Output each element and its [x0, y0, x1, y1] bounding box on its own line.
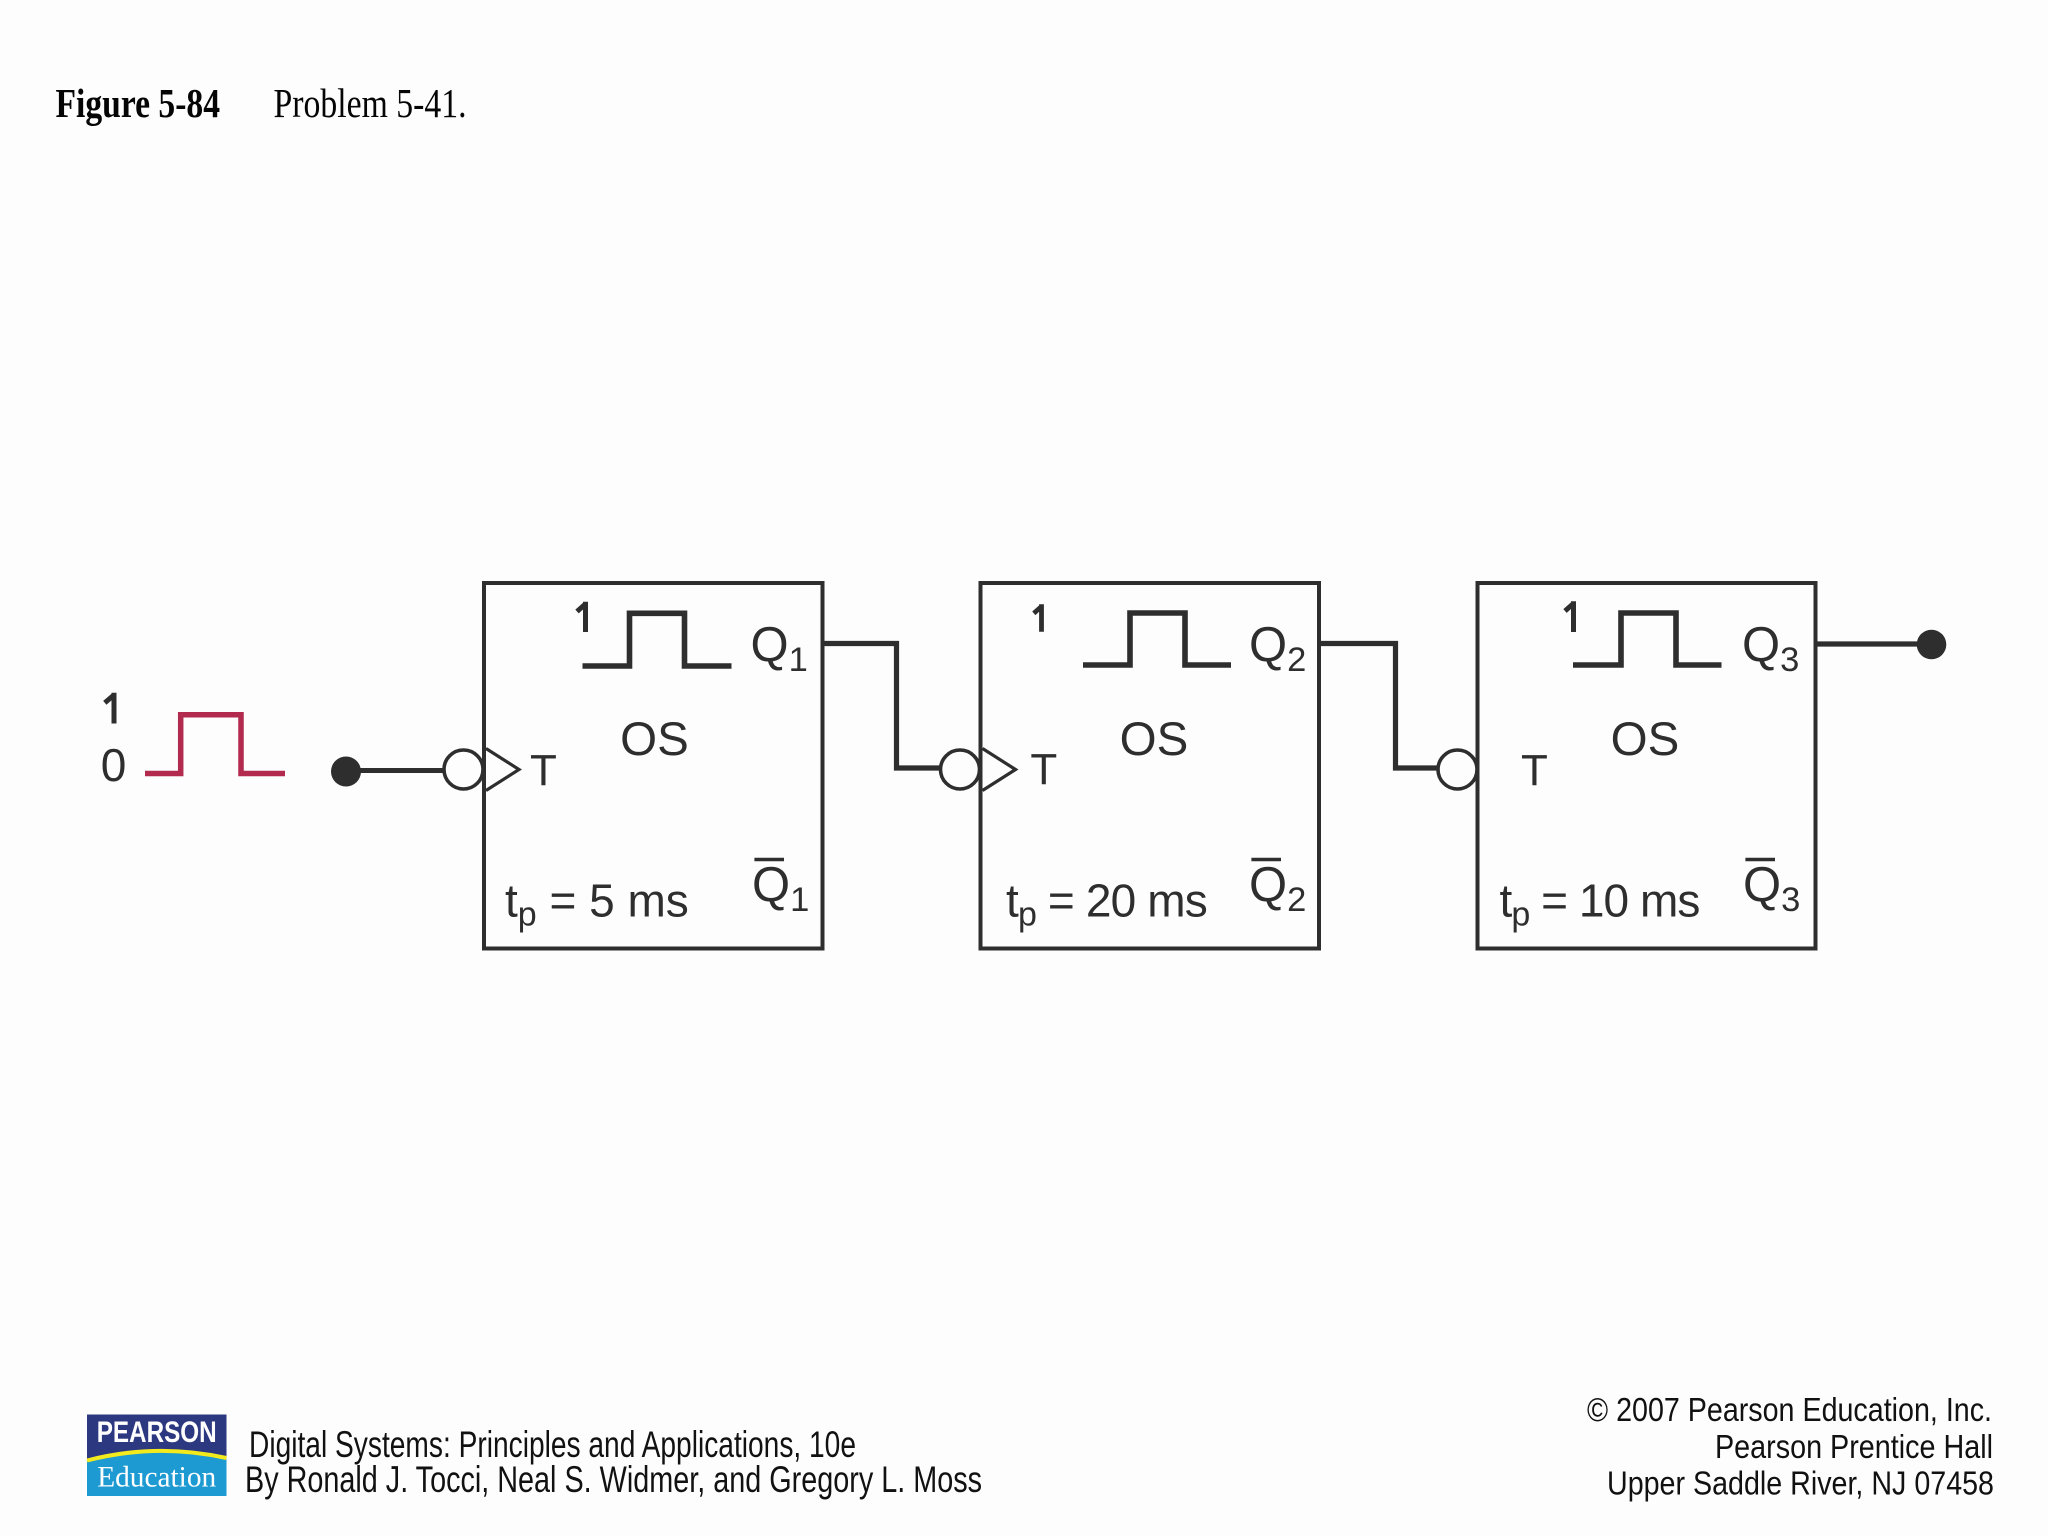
inversion circle at T input of U2: [941, 750, 980, 789]
U3 pulse symbol: [1573, 613, 1722, 665]
svg-text:© 2007 Pearson Education, Inc.: © 2007 Pearson Education, Inc.: [1587, 1391, 1992, 1428]
inversion circle at T input of U3: [1438, 750, 1477, 789]
svg-text:OS: OS: [620, 713, 689, 766]
U1 pulse symbol: [583, 613, 732, 666]
Pearson Education logo: [87, 1415, 227, 1497]
svg-text:Pearson Prentice Hall: Pearson Prentice Hall: [1715, 1428, 1993, 1465]
wire Q2 to T3: [1319, 644, 1438, 769]
svg-text:T: T: [1030, 745, 1057, 794]
U3 pulse level label 1: [1565, 601, 1574, 632]
U2 pulse symbol: [1083, 613, 1231, 665]
svg-text:Figure 5-84: Figure 5-84: [56, 80, 221, 126]
svg-text:T: T: [530, 746, 557, 795]
edge-trigger triangle at T input of U1: [486, 749, 519, 791]
svg-text:OS: OS: [1120, 713, 1189, 766]
U3 Q3-bar overline: [1745, 858, 1775, 861]
one-shot U1 box: [484, 583, 823, 949]
svg-text:Education: Education: [97, 1461, 216, 1494]
U2 Q2-bar overline: [1251, 858, 1281, 861]
U1 Q1-bar overline: [754, 858, 784, 861]
svg-text:Upper Saddle River, NJ 07458: Upper Saddle River, NJ 07458: [1607, 1465, 1994, 1502]
wire Q1 to T2: [823, 644, 941, 769]
wire Q3 to output node: [1815, 641, 1920, 646]
svg-text:By Ronald J. Tocci, Neal S. Wi: By Ronald J. Tocci, Neal S. Widmer, and …: [245, 1458, 982, 1500]
one-shot U2 box: [981, 583, 1320, 949]
edge-trigger triangle at T input of U2: [983, 749, 1016, 791]
svg-text:0: 0: [101, 739, 127, 791]
svg-text:tp = 10 ms: tp = 10 ms: [1500, 875, 1700, 934]
node input dot: [331, 757, 361, 787]
svg-text:OS: OS: [1611, 713, 1680, 766]
U1 pulse level label 1: [577, 602, 586, 632]
wire input to T1: [346, 768, 444, 773]
svg-text:tp = 20 ms: tp = 20 ms: [1006, 875, 1207, 934]
one-shot U3 box: [1478, 583, 1816, 949]
svg-text:Problem 5-41.: Problem 5-41.: [274, 80, 467, 126]
node output dot: [1917, 630, 1947, 660]
input trigger pulse (red): [145, 715, 285, 774]
svg-text:PEARSON: PEARSON: [97, 1416, 217, 1449]
svg-text:T: T: [1521, 746, 1548, 795]
title Figure 5-84 Problem 5-41: [56, 80, 467, 126]
input waveform label 1: [105, 693, 115, 724]
U2 pulse level label 1: [1034, 604, 1042, 631]
inversion circle at T input of U1: [444, 750, 483, 789]
